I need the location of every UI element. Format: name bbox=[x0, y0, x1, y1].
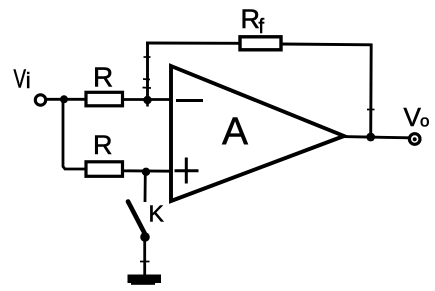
svg-text:R: R bbox=[93, 130, 113, 160]
label A (op-amp gain) bbox=[222, 111, 248, 154]
wire input terminal to node A bbox=[46, 98, 64, 101]
svg-text:K: K bbox=[149, 201, 165, 227]
scan tick on right feedback wire bbox=[367, 109, 375, 111]
svg-text:R: R bbox=[93, 62, 113, 93]
svg-text:A: A bbox=[222, 111, 248, 154]
wire node C down to switch bbox=[144, 172, 147, 202]
label Rf bbox=[241, 4, 265, 38]
wire switch to ground bbox=[143, 238, 146, 276]
resistor Rf bbox=[240, 37, 281, 50]
ground bbox=[128, 275, 162, 285]
wire feedback top left segment bbox=[146, 42, 241, 45]
wire feedback right vertical down to output node bbox=[369, 44, 372, 137]
wire R2 to node C bbox=[123, 169, 172, 172]
label Vo bbox=[404, 102, 430, 132]
input terminal Vi bbox=[35, 95, 45, 105]
wire node A to resistor R1 bbox=[64, 98, 87, 101]
op-amp inverting input minus sign bbox=[176, 99, 203, 102]
wire node A down to R2 bbox=[63, 100, 87, 169]
op-amp non-inverting input plus sign bbox=[175, 158, 199, 184]
switch K blade bbox=[128, 202, 146, 237]
wire op-amp output to terminal bbox=[343, 137, 410, 138]
switch K pivot node bbox=[140, 232, 150, 242]
scan ticks on left feedback wire bbox=[143, 57, 152, 88]
svg-text:f: f bbox=[259, 16, 265, 38]
svg-text:i: i bbox=[26, 68, 31, 93]
node B (inverting input junction) bbox=[143, 96, 151, 107]
resistor R2 (bottom R) bbox=[86, 162, 123, 177]
wire feedback left vertical (node B up) bbox=[146, 43, 149, 101]
label K bbox=[149, 201, 165, 227]
output terminal Vo bbox=[409, 134, 420, 145]
label R1 bbox=[93, 62, 113, 93]
label R2 bbox=[93, 130, 113, 160]
svg-text:V: V bbox=[14, 63, 26, 93]
wire R1 to node B bbox=[123, 98, 172, 101]
op-amp U1 triangle bbox=[171, 66, 344, 201]
node D (output junction) bbox=[366, 133, 375, 142]
resistor R1 (top R) bbox=[86, 92, 123, 106]
wire feedback top right segment bbox=[281, 43, 373, 47]
svg-text:o: o bbox=[420, 112, 429, 131]
label Vi bbox=[14, 63, 31, 93]
node C (non-inverting input junction) bbox=[142, 168, 150, 176]
scan tick on ground wire bbox=[140, 261, 150, 263]
node A (input junction) bbox=[60, 95, 68, 103]
svg-text:R: R bbox=[241, 4, 261, 34]
svg-text:V: V bbox=[404, 102, 422, 132]
